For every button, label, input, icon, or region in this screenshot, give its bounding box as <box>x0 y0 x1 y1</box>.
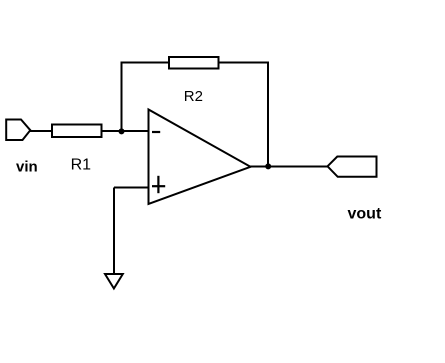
output port vout <box>328 157 377 177</box>
op-amp minus pin mark <box>152 131 160 133</box>
svg-text:vout: vout <box>348 206 382 223</box>
op-amp plus pin mark <box>152 176 165 193</box>
node A junction dot <box>119 128 125 134</box>
wire non-inverting input <box>114 187 149 189</box>
output node junction dot <box>265 163 271 169</box>
wire feedback top <box>121 62 270 64</box>
wire R1 to inverting input <box>100 130 149 132</box>
wire input port to R1 <box>29 130 53 132</box>
op-amp U1 <box>149 110 251 205</box>
wire feedback right drop <box>267 62 269 167</box>
wire op-amp output to port vout <box>250 166 328 168</box>
ground <box>105 274 123 289</box>
wire node A up to feedback <box>121 62 123 132</box>
resistor R1 <box>52 125 102 138</box>
svg-text:R2: R2 <box>184 88 203 105</box>
svg-text:vin: vin <box>16 159 38 176</box>
wire to ground <box>113 188 115 276</box>
svg-text:R1: R1 <box>71 156 92 173</box>
input port vin <box>6 120 30 141</box>
resistor R2 <box>169 57 219 69</box>
